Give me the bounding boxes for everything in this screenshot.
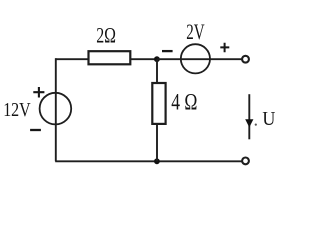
svg-text:4 Ω: 4 Ω (171, 90, 197, 115)
polarity plus sign of V1 (top) (33, 87, 44, 98)
wire: from R1 right side to top junction node (130, 58, 157, 60)
junction dot: top node between R1, R2 and V2 (154, 56, 160, 62)
polarity minus sign of V2 (left) (162, 50, 173, 52)
label: 12V value of V1 (3, 99, 31, 121)
svg-text:12V: 12V (3, 99, 31, 121)
wire: bottom horizontal from left corner to bottom terminal (55, 160, 242, 162)
svg-text:2Ω: 2Ω (96, 22, 116, 47)
polarity plus sign of V2 (right) (220, 43, 229, 52)
label: U voltage name (262, 108, 275, 130)
wire: from top junction through V2 to top terminal (157, 58, 242, 60)
voltage source V1 12V circle (40, 93, 72, 125)
svg-text:2V: 2V (186, 19, 204, 44)
label: 4 Ω value of R2 (171, 90, 197, 115)
voltage arrow U (downward) (245, 94, 257, 139)
terminal: bottom-right open terminal (242, 158, 249, 165)
wire: middle branch upper segment from top node to R2 (156, 59, 158, 84)
wire: top-left horizontal segment from corner to R1 (55, 58, 89, 60)
voltage source V2 2V circle (181, 44, 210, 73)
terminal: top-right open terminal (242, 56, 249, 63)
wire: middle branch lower segment from R2 to bottom node (156, 124, 158, 161)
resistor R2 4Ω body (152, 83, 165, 124)
svg-text:U: U (262, 108, 275, 130)
label: 2V value of V2 (186, 19, 204, 44)
wire: left vertical branch through V1 (55, 58, 57, 161)
label: 2Ω value of R1 (96, 22, 116, 47)
polarity minus sign of V1 (bottom) (30, 129, 41, 131)
junction dot: bottom node of R2 branch (154, 158, 160, 164)
resistor R1 2Ω body (89, 51, 131, 64)
